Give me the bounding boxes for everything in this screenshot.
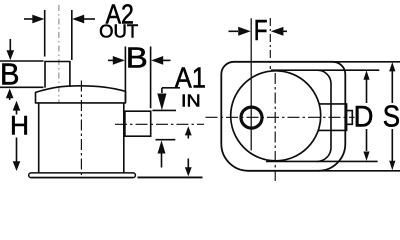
dimension B (middle) right arrow (pointing left) [151,56,170,65]
dimension A2 left extension line [44,10,46,57]
vertical centerline of body circle / F right line (dash-dot) [274,73,276,181]
dimension A2 right arrow (pointing left) [72,15,95,24]
dimension S line with arrows [389,62,395,170]
cover right outline (top-right corner, right edge, bottom-right corner) [317,70,331,161]
dimension B (vertical, left) up arrow [6,89,14,101]
outer flange rounded square [221,62,345,171]
dimension S bottom extension line [318,170,400,172]
dimension centerline-to-base line with arrows [185,126,192,176]
dimension A1 bottom extension line [156,139,176,141]
body left edge [38,103,40,173]
dimension A1 top extension line [152,109,176,111]
dimension D top extension line (cover top edge) [271,69,379,71]
dimension A1 down arrow [157,88,166,111]
svg-text:F: F [254,14,268,46]
svg-text:S: S [383,100,400,134]
body circle (diameter D) [231,71,321,161]
body right edge [123,103,125,173]
top port (outlet stub) [45,62,70,88]
svg-text:D: D [354,100,374,133]
dimension B (middle) left arrow (pointing right) [108,56,125,65]
dimension H down arrow [13,138,21,172]
dimension H up arrow [13,101,21,115]
side port (inlet stub) [125,111,151,136]
ground / mounting surface line [138,176,203,178]
dimension B (horizontal, middle) left extension line [124,47,126,102]
flange bottom edge (heavy) [31,177,133,179]
lid (domed cover) [36,86,126,103]
dimension F left arrow (pointing right) [229,27,251,36]
outlet port circle (top view) [241,107,262,128]
vertical line through outlet port / F left extension [250,18,252,150]
extension line lid-apex level (left) [0,86,44,88]
svg-text:H: H [10,110,29,140]
svg-text:B: B [0,57,20,91]
inlet port tab (top view) [318,104,346,130]
dimension D bottom extension line (cover bottom edge) [266,160,378,162]
inlet port tube end (small tab) [347,111,353,125]
body centerline (dash-dot) [80,81,82,178]
centerline of top port (dash-dot) [58,5,60,103]
dimension F right extension line (dash-dot) [269,18,271,69]
mounting flange (rounded bar) [29,173,136,178]
dimension F right arrow (pointing left) [271,27,287,36]
dimension A2 right extension line [71,10,73,60]
dimension A2 left arrow (pointing right) [24,15,44,24]
dimension D line with arrows [363,70,369,160]
dimension B (vertical, left) down arrow [7,39,15,60]
svg-text:B: B [126,43,148,75]
dimension B (horizontal, middle) right extension line [150,47,152,109]
dimension A1 up arrow [158,140,166,167]
svg-text:OUT: OUT [99,21,138,41]
side port centerline (dash-dot) [115,123,204,125]
dimension A1 leader under label [162,87,180,89]
main horizontal centerline (dash-dot) [206,116,355,118]
svg-text:IN: IN [181,91,201,111]
dimension S top extension line [332,61,400,63]
extension line port-top level (left) [0,60,44,62]
